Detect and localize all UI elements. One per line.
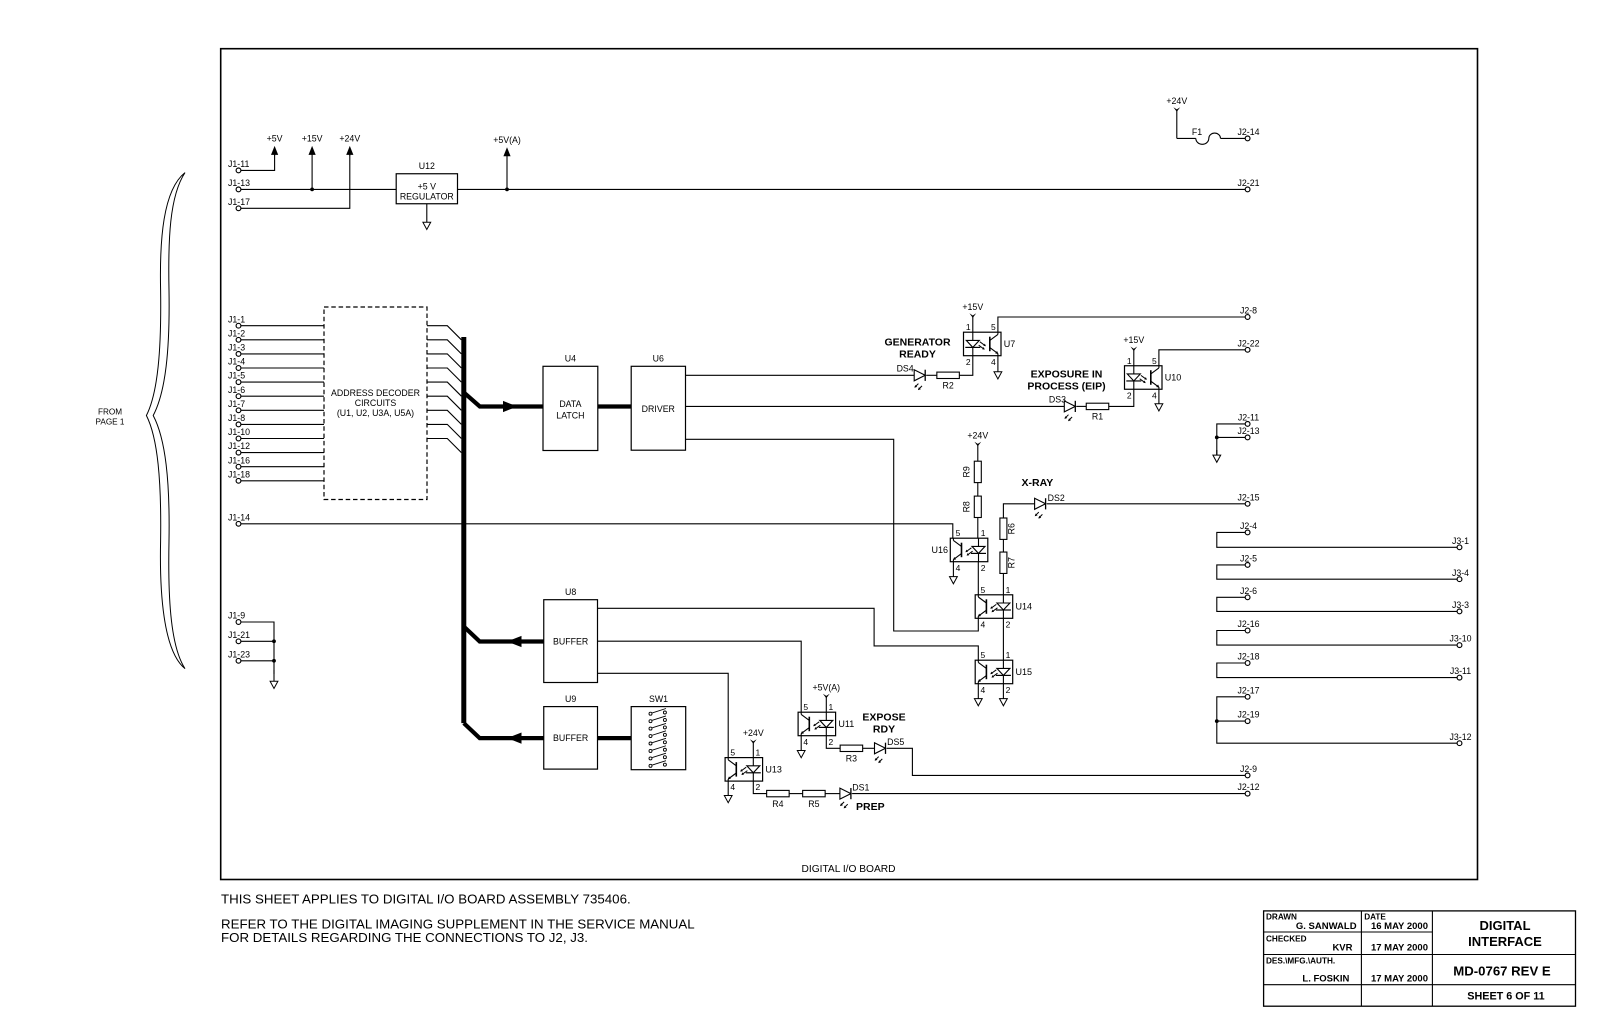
connector pin J1-8 (228, 413, 245, 427)
svg-text:U16: U16 (931, 545, 948, 555)
svg-text:+15V: +15V (962, 302, 983, 312)
svg-text:J2-9: J2-9 (1240, 764, 1257, 774)
ground below U7 pin4 (994, 356, 1002, 379)
wire J1-12 to decoder (241, 452, 324, 454)
connector pin J2-21 (1237, 178, 1259, 192)
ground below U15 pin4 (974, 684, 982, 706)
svg-text:R4: R4 (772, 799, 783, 809)
svg-text:DIGITAL: DIGITAL (1479, 918, 1530, 933)
svg-text:1: 1 (1127, 356, 1132, 366)
dip switch SW1 (631, 694, 686, 770)
ground below U12 (423, 204, 431, 230)
bus feed to U4 (thick arrow right) (464, 392, 543, 412)
connector pin J3-11 (1450, 666, 1471, 680)
wire J2-6 to J3-3 (1217, 597, 1458, 611)
svg-text:5: 5 (981, 585, 986, 595)
optocoupler U10 (1125, 356, 1182, 401)
wire J2-18 to J3-11 (1217, 663, 1458, 678)
svg-text:J2-11: J2-11 (1238, 413, 1259, 423)
svg-text:DIGITAL I/O BOARD: DIGITAL I/O BOARD (802, 864, 896, 875)
svg-text:MD-0767 REV E: MD-0767 REV E (1453, 963, 1551, 978)
svg-text:J1-5: J1-5 (228, 371, 245, 381)
LED DS1 (840, 783, 870, 809)
svg-text:R3: R3 (846, 754, 857, 764)
svg-text:5: 5 (1152, 356, 1157, 366)
wire J1-6 to decoder (241, 395, 324, 397)
note refer supplement (221, 916, 695, 945)
svg-text:J1-1: J1-1 (228, 314, 245, 324)
svg-text:R5: R5 (808, 799, 819, 809)
wire U14 pin4 from U6 out3 (686, 439, 979, 631)
connector pin J2-8 (1240, 306, 1257, 320)
thick wire U9 to SW1 (598, 736, 632, 740)
connector pin J1-4 (228, 357, 245, 371)
svg-text:4: 4 (981, 685, 986, 695)
svg-text:+24V: +24V (339, 134, 360, 144)
resistor R8 (962, 496, 982, 517)
wire decoder output 7 to bus (427, 410, 461, 424)
net label GENERATOR READY (884, 337, 951, 361)
svg-text:ADDRESS DECODER: ADDRESS DECODER (331, 388, 420, 398)
svg-text:2: 2 (1006, 685, 1011, 695)
svg-text:J1-9: J1-9 (228, 611, 245, 621)
connector pin J3-12 (1449, 732, 1471, 746)
connector pin J1-1 (228, 314, 245, 328)
wire U8 out3 to U13 pin5 (598, 673, 729, 757)
svg-text:4: 4 (956, 563, 961, 573)
junction +5V(A) on +5V line (505, 188, 509, 192)
ground below J1-23 group (270, 670, 278, 689)
svg-text:BUFFER: BUFFER (553, 637, 588, 647)
svg-text:1: 1 (1006, 585, 1011, 595)
svg-text:DS3: DS3 (1049, 395, 1066, 405)
svg-text:INTERFACE: INTERFACE (1468, 934, 1542, 949)
svg-text:+5V: +5V (267, 134, 283, 144)
bus feed from U9 (thick arrow left) (464, 723, 544, 744)
wire U10 pin5 to J2-22 (1159, 350, 1246, 366)
svg-text:+15V: +15V (1123, 335, 1144, 345)
svg-text:READY: READY (899, 349, 936, 361)
wire J1-3 to decoder (241, 353, 324, 355)
wire J1-1 to decoder (241, 325, 324, 327)
svg-text:1: 1 (829, 702, 834, 712)
wire J1-4 to decoder (241, 367, 324, 369)
wire U15 pin5 from U8 out1 (598, 608, 979, 660)
junction J2-19 tie (1215, 719, 1219, 723)
wire U16 pin2 to U14 pin5 (977, 562, 979, 595)
connector pin J1-11 (228, 159, 249, 173)
ground below U15 pin2 (1000, 684, 1008, 706)
svg-text:2: 2 (966, 357, 971, 367)
svg-text:J3-12: J3-12 (1449, 732, 1471, 742)
connector pin J2-5 (1240, 554, 1257, 568)
buffer U9 (544, 694, 598, 769)
svg-text:J1-6: J1-6 (228, 385, 245, 395)
svg-text:5: 5 (981, 650, 986, 660)
wire DS3 to R1 (1076, 405, 1086, 407)
svg-text:U4: U4 (565, 354, 576, 364)
wire DS1 to J2-12 (852, 793, 1245, 795)
junction J1-23 tie (272, 659, 276, 663)
net label EXPOSE RDY (862, 711, 905, 735)
connector pin J1-16 (228, 455, 250, 469)
svg-text:2: 2 (981, 563, 986, 573)
svg-text:J2-6: J2-6 (1240, 586, 1257, 596)
power +15V above U10 (1123, 335, 1144, 366)
svg-text:J2-15: J2-15 (1237, 492, 1259, 502)
ground below U11 pin4 (797, 736, 805, 758)
net label EXPOSURE IN PROCESS (EIP) (1027, 368, 1105, 392)
svg-text:LATCH: LATCH (556, 410, 584, 420)
svg-text:J2-16: J2-16 (1237, 619, 1259, 629)
schematic border frame (221, 49, 1478, 880)
wire U7 pin5 to J2-8 (998, 317, 1246, 332)
data bus (thick vertical) (461, 337, 466, 723)
svg-text:U7: U7 (1004, 339, 1016, 349)
svg-text:J1-2: J1-2 (228, 328, 245, 338)
svg-text:SW1: SW1 (649, 694, 668, 704)
wire U11 pin2 to R3 (826, 736, 840, 749)
svg-text:J2-5: J2-5 (1240, 554, 1257, 564)
wire decoder output 9 to bus (427, 439, 461, 453)
svg-text:4: 4 (981, 619, 986, 629)
title block frame (1264, 911, 1576, 1006)
wire decoder output 8 to bus (427, 424, 461, 438)
wire DS2 to J2-15 (1047, 503, 1246, 505)
svg-text:+5V(A): +5V(A) (493, 135, 521, 145)
junction J2-13 tie (1215, 436, 1219, 440)
svg-text:1: 1 (1006, 650, 1011, 660)
ground below U10 pin4 (1155, 389, 1163, 411)
svg-text:5: 5 (803, 702, 808, 712)
svg-text:DS2: DS2 (1048, 493, 1065, 503)
LED DS4 (897, 364, 926, 390)
svg-text:J3-1: J3-1 (1452, 536, 1469, 546)
wire R4 to R5 (789, 793, 803, 795)
wire J2-11 J2-13 common (1217, 424, 1246, 455)
wire decoder output 1 to bus (427, 326, 461, 340)
svg-text:SHEET 6 OF 11: SHEET 6 OF 11 (1467, 991, 1544, 1003)
svg-text:4: 4 (991, 357, 996, 367)
connector pin J1-12 (228, 441, 250, 455)
svg-text:5: 5 (956, 528, 961, 538)
connector pin J1-17 (228, 197, 250, 211)
connector pin J2-6 (1240, 586, 1257, 600)
svg-text:DRIVER: DRIVER (642, 404, 675, 414)
resistor R4 (767, 790, 790, 808)
wire DS4 to R2 (926, 374, 937, 376)
connector pin J2-4 (1240, 521, 1257, 535)
power +15V (302, 134, 323, 190)
connector pin J1-3 (228, 343, 245, 357)
svg-text:THIS SHEET APPLIES TO DIGITAL: THIS SHEET APPLIES TO DIGITAL I/O BOARD … (221, 891, 631, 906)
power +5V(A) above U11 (812, 682, 840, 712)
svg-text:J2-19: J2-19 (1237, 710, 1259, 720)
svg-text:R9: R9 (962, 466, 972, 477)
connector pin J1-7 (228, 399, 245, 413)
svg-text:REGULATOR: REGULATOR (400, 191, 454, 201)
svg-text:J3-3: J3-3 (1452, 600, 1469, 610)
svg-text:4: 4 (803, 737, 808, 747)
svg-text:J1-4: J1-4 (228, 357, 245, 367)
wire R6 top to DS2 (1003, 504, 1034, 519)
power +24V above U13 (743, 728, 764, 758)
power +5V (267, 134, 283, 156)
junction J1-21 tie (272, 639, 276, 643)
resistor R3 (840, 745, 863, 763)
svg-text:J2-18: J2-18 (1237, 652, 1259, 662)
connector pin J1-9 (228, 611, 245, 625)
brace from page 1 (146, 173, 185, 669)
svg-text:J2-13: J2-13 (1237, 426, 1259, 436)
svg-text:EXPOSE: EXPOSE (862, 711, 905, 723)
svg-text:+24V: +24V (967, 430, 988, 440)
svg-text:PAGE 1: PAGE 1 (96, 417, 125, 426)
thick wire U4 to U6 (598, 404, 631, 408)
connector pin J1-14 (228, 512, 250, 526)
svg-text:R2: R2 (942, 381, 953, 391)
connector pin J1-2 (228, 328, 245, 342)
ground below J2-11/J2-13 (1213, 450, 1221, 462)
wire U14 pin2 to U15 pin1 (1002, 618, 1004, 660)
wire fuse to J2-14 (1221, 137, 1246, 139)
svg-text:PREP: PREP (856, 801, 885, 813)
connector pin J1-18 (228, 469, 250, 483)
connector pin J2-9 (1240, 764, 1257, 778)
wire J2-16 to J3-10 (1217, 631, 1458, 646)
svg-text:J1-3: J1-3 (228, 343, 245, 353)
svg-text:J3-11: J3-11 (1450, 666, 1471, 676)
svg-text:J2-14: J2-14 (1237, 127, 1259, 137)
svg-text:G. SANWALD: G. SANWALD (1296, 921, 1357, 932)
svg-text:J2-21: J2-21 (1237, 178, 1259, 188)
title block drawn row (1266, 913, 1428, 933)
svg-text:1: 1 (981, 528, 986, 538)
connector pin J2-17 (1237, 685, 1259, 699)
wire R7 to U14 pin1 (1002, 573, 1004, 594)
svg-text:2: 2 (829, 737, 834, 747)
connector pin J3-1 (1452, 536, 1469, 550)
connector pin J2-11 (1238, 413, 1259, 427)
title block title DIGITAL INTERFACE (1468, 918, 1542, 949)
svg-text:J2-12: J2-12 (1237, 782, 1259, 792)
bus feed from U8 (thick arrow left) (464, 627, 544, 648)
connector pin J1-13 (228, 178, 250, 192)
svg-text:DATA: DATA (559, 399, 581, 409)
wire J1-14 to U16 pin5 (241, 524, 953, 538)
connector pin J3-3 (1452, 600, 1469, 614)
connector pin J2-12 (1237, 782, 1259, 796)
svg-text:U15: U15 (1016, 667, 1033, 677)
svg-text:5: 5 (730, 748, 735, 758)
svg-text:DRAWN: DRAWN (1266, 913, 1297, 922)
svg-text:FOR DETAILS REGARDING THE CONN: FOR DETAILS REGARDING THE CONNECTIONS TO… (221, 930, 588, 945)
svg-text:U6: U6 (653, 354, 664, 364)
wire U12 output to J2-21 (+5V line) (458, 188, 1246, 190)
svg-text:U13: U13 (765, 764, 782, 774)
wire R6 to R7 (1002, 539, 1004, 552)
svg-text:DS1: DS1 (852, 783, 869, 793)
svg-text:R6: R6 (1007, 523, 1017, 534)
connector pin J2-19 (1237, 710, 1259, 724)
wire J2-4 to J3-1 (1217, 532, 1458, 547)
svg-text:RDY: RDY (873, 724, 895, 736)
wire decoder output 2 to bus (427, 340, 461, 354)
address decoder circuits block U1 U2 U3A U5A (324, 307, 427, 500)
resistor R7 (1000, 552, 1017, 573)
wire J1-18 to decoder (241, 480, 324, 482)
wire decoder output 6 to bus (427, 396, 461, 410)
svg-text:1: 1 (756, 748, 761, 758)
optocoupler U15 (975, 650, 1032, 695)
wire J1-13 to U12 (241, 188, 396, 190)
fuse F1 (1192, 127, 1221, 144)
connector pin J2-18 (1237, 652, 1259, 666)
svg-text:DS4: DS4 (897, 364, 914, 374)
wire U6 out1 to DS4 (686, 374, 915, 376)
node FROM PAGE 1 (96, 407, 125, 426)
wire DS5 to J2-9 (887, 748, 1246, 775)
wire J2-5 to J3-4 (1217, 565, 1458, 579)
svg-text:KVR: KVR (1332, 942, 1352, 953)
svg-text:F1: F1 (1192, 127, 1202, 137)
svg-text:+5V(A): +5V(A) (812, 682, 840, 692)
svg-text:4: 4 (1152, 390, 1157, 400)
wire decoder output 4 to bus (427, 368, 461, 382)
optocoupler U16 (931, 528, 987, 573)
svg-text:BUFFER: BUFFER (553, 733, 588, 743)
wire J1-16 to decoder (241, 466, 324, 468)
wire J1-7 to decoder (241, 409, 324, 411)
wire +24V to fuse (1177, 137, 1196, 139)
resistor R6 (1000, 518, 1017, 539)
connector pin J1-5 (228, 371, 245, 385)
resistor R1 (1086, 403, 1109, 421)
svg-text:1: 1 (966, 322, 971, 332)
power +24V (to fuse F1) (1166, 96, 1187, 139)
svg-text:J2-22: J2-22 (1237, 338, 1259, 348)
svg-text:J3-10: J3-10 (1449, 634, 1471, 644)
svg-text:CIRCUITS: CIRCUITS (355, 398, 397, 408)
svg-text:X-RAY: X-RAY (1022, 477, 1054, 489)
power +24V (top left) (339, 134, 360, 156)
svg-text:4: 4 (730, 782, 735, 792)
svg-text:2: 2 (756, 782, 761, 792)
svg-text:J2-4: J2-4 (1240, 521, 1257, 531)
svg-text:(U1, U2, U3A, U5A): (U1, U2, U3A, U5A) (337, 408, 414, 418)
wire J1-9 J1-21 J1-23 common (241, 622, 274, 674)
data latch U4 (543, 354, 598, 451)
title block checked row (1266, 934, 1428, 953)
svg-text:+24V: +24V (743, 728, 764, 738)
svg-text:PROCESS (EIP): PROCESS (EIP) (1027, 380, 1105, 392)
wire J1-10 to decoder (241, 438, 324, 440)
wire J1-5 to decoder (241, 381, 324, 383)
svg-text:+24V: +24V (1166, 96, 1187, 106)
LED DS3 (1049, 395, 1075, 422)
wire R1 to U10 pin2 (1109, 389, 1134, 406)
svg-text:U12: U12 (419, 161, 435, 171)
wire J2-17 J2-19 to J3-12 (1217, 697, 1458, 743)
svg-text:J2-17: J2-17 (1237, 685, 1259, 695)
svg-text:R7: R7 (1007, 557, 1017, 568)
svg-text:DATE: DATE (1364, 913, 1386, 922)
buffer U8 (544, 587, 598, 682)
svg-text:EXPOSURE IN: EXPOSURE IN (1031, 368, 1103, 380)
power +5V(A) (493, 135, 521, 189)
svg-text:+5 V: +5 V (418, 181, 436, 191)
optocoupler U11 (798, 702, 854, 747)
svg-text:FROM: FROM (98, 407, 122, 416)
LED DS2 (1035, 493, 1065, 518)
wire R8 to U16 pin1 (977, 518, 979, 539)
svg-text:U11: U11 (838, 719, 854, 729)
svg-text:17 MAY 2000: 17 MAY 2000 (1371, 973, 1428, 984)
connector pin J1-23 (228, 649, 250, 663)
wire decoder output 3 to bus (427, 354, 461, 368)
wire R3 to DS5 (863, 747, 875, 749)
power +15V above U7 (962, 302, 983, 332)
svg-text:R1: R1 (1092, 412, 1103, 422)
svg-text:R8: R8 (962, 501, 972, 512)
svg-text:CHECKED: CHECKED (1266, 934, 1307, 943)
svg-text:U14: U14 (1016, 602, 1033, 612)
wire J1-8 to decoder (241, 423, 324, 425)
wire U6 out2 to DS3 (686, 405, 1065, 407)
svg-text:16 MAY 2000: 16 MAY 2000 (1371, 921, 1428, 932)
connector pin J2-22 (1237, 338, 1259, 352)
wire R2 to U7 pin2 (959, 356, 973, 376)
connector pin J2-16 (1237, 619, 1259, 633)
svg-text:U10: U10 (1165, 373, 1182, 383)
svg-text:J1-8: J1-8 (228, 413, 245, 423)
ground below U13 pin4 (724, 781, 732, 803)
svg-text:DS5: DS5 (887, 737, 904, 747)
svg-text:2: 2 (1006, 619, 1011, 629)
resistor R2 (937, 372, 960, 390)
regulator U12 (396, 161, 457, 204)
optocoupler U7 (964, 322, 1016, 367)
wire J1-11 to +5V (241, 154, 275, 170)
resistor R5 (803, 790, 826, 808)
wire R5 to DS1 (825, 793, 840, 795)
ground below U16 pin4 (950, 562, 958, 584)
connector pin J1-10 (228, 427, 250, 441)
svg-text:DES.\MFG.\AUTH.: DES.\MFG.\AUTH. (1266, 956, 1335, 965)
title block authorized row (1266, 956, 1428, 984)
connector pin J3-10 (1449, 634, 1471, 648)
svg-text:5: 5 (991, 322, 996, 332)
wire J1-2 to decoder (241, 339, 324, 341)
power +24V above R9 (967, 430, 988, 461)
optocoupler U14 (975, 585, 1032, 630)
svg-text:J3-4: J3-4 (1452, 568, 1469, 578)
svg-text:L. FOSKIN: L. FOSKIN (1302, 973, 1349, 984)
wire decoder output 5 to bus (427, 382, 461, 396)
svg-text:2: 2 (1127, 390, 1132, 400)
wire R9 to R8 (977, 483, 979, 497)
junction +15V on J1-13 line (310, 188, 314, 192)
connector pin J2-13 (1237, 426, 1259, 440)
svg-text:17 MAY 2000: 17 MAY 2000 (1371, 942, 1428, 953)
connector pin J2-14 (1237, 127, 1259, 141)
wire U8 out2 to U11 pin5 (598, 641, 802, 712)
connector pin J1-21 (228, 630, 250, 644)
svg-text:J2-8: J2-8 (1240, 306, 1257, 316)
svg-text:GENERATOR: GENERATOR (884, 337, 951, 349)
svg-text:U9: U9 (565, 694, 576, 704)
wire U13 pin2 to R4 (753, 781, 766, 794)
